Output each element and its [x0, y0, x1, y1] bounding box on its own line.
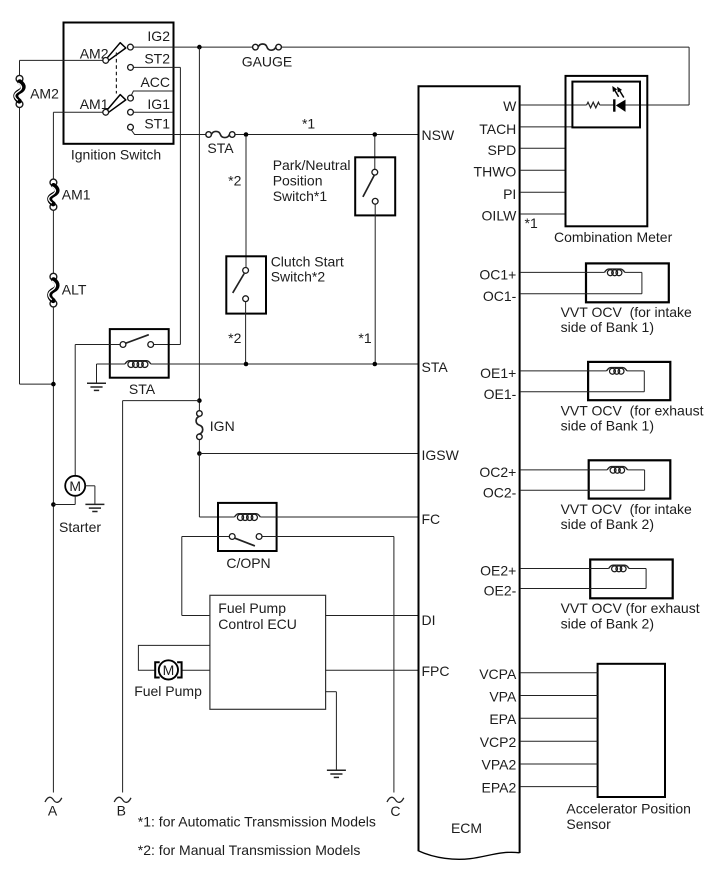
svg-text:Starter: Starter [59, 519, 101, 535]
svg-text:FC: FC [422, 511, 441, 527]
svg-text:OE1+: OE1+ [480, 365, 516, 381]
svg-text:*2: for Manual Transmission Mo: *2: for Manual Transmission Models [138, 842, 361, 858]
svg-text:TACH: TACH [479, 121, 516, 137]
svg-text:side of Bank 2): side of Bank 2) [561, 615, 654, 631]
svg-text:*2: *2 [228, 330, 241, 346]
svg-text:side of Bank 2): side of Bank 2) [561, 516, 654, 532]
svg-text:FPC: FPC [422, 663, 450, 679]
svg-text:M: M [69, 478, 81, 494]
svg-text:ST1: ST1 [144, 116, 170, 132]
svg-text:IG1: IG1 [147, 96, 170, 112]
svg-text:OC1-: OC1- [483, 288, 517, 304]
svg-text:C/OPN: C/OPN [226, 555, 270, 571]
svg-text:*1: *1 [525, 215, 538, 231]
svg-text:GAUGE: GAUGE [242, 54, 293, 70]
svg-text:STA: STA [422, 359, 449, 375]
svg-text:OILW: OILW [482, 208, 518, 224]
svg-text:*1: *1 [358, 330, 371, 346]
svg-text:AM2: AM2 [30, 86, 59, 102]
svg-text:Clutch Start: Clutch Start [271, 253, 344, 269]
svg-text:SPD: SPD [488, 142, 517, 158]
svg-text:Park/Neutral: Park/Neutral [273, 157, 351, 173]
svg-text:W: W [503, 98, 517, 114]
svg-text:VVT OCV (for intake: VVT OCV (for intake [561, 501, 692, 517]
svg-text:B: B [117, 803, 126, 819]
svg-text:Combination Meter: Combination Meter [554, 229, 673, 245]
svg-text:Fuel Pump: Fuel Pump [218, 600, 286, 616]
svg-text:PI: PI [503, 186, 516, 202]
svg-text:DI: DI [422, 612, 436, 628]
svg-text:ST2: ST2 [144, 50, 170, 66]
svg-text:Position: Position [273, 173, 323, 189]
svg-text:VVT OCV (for exhaust: VVT OCV (for exhaust [561, 600, 700, 616]
svg-text:OC2-: OC2- [483, 484, 517, 500]
svg-text:OE2+: OE2+ [480, 563, 516, 579]
svg-text:Switch*2: Switch*2 [271, 268, 326, 284]
svg-text:STA: STA [129, 381, 156, 397]
svg-text:*1: for Automatic Transmission: *1: for Automatic Transmission Models [138, 814, 376, 830]
svg-text:OC1+: OC1+ [479, 266, 516, 282]
svg-text:*2: *2 [228, 173, 241, 189]
svg-text:THWO: THWO [474, 164, 517, 180]
svg-text:NSW: NSW [422, 127, 455, 143]
svg-text:ALT: ALT [62, 282, 87, 298]
svg-text:OE1-: OE1- [484, 386, 517, 402]
svg-text:VPA2: VPA2 [482, 757, 517, 773]
svg-text:C: C [390, 803, 400, 819]
svg-text:A: A [48, 803, 58, 819]
svg-text:Control ECU: Control ECU [218, 616, 297, 632]
svg-text:IGN: IGN [210, 418, 235, 434]
svg-text:side of Bank 1): side of Bank 1) [561, 319, 654, 335]
svg-text:IGSW: IGSW [422, 447, 460, 463]
svg-text:side of Bank 1): side of Bank 1) [561, 418, 654, 434]
svg-text:EPA2: EPA2 [482, 779, 517, 795]
svg-text:OE2-: OE2- [484, 583, 517, 599]
svg-text:ACC: ACC [140, 74, 170, 90]
svg-text:VCPA: VCPA [479, 666, 517, 682]
svg-text:AM1: AM1 [62, 187, 91, 203]
svg-text:Sensor: Sensor [566, 816, 611, 832]
svg-text:STA: STA [207, 140, 234, 156]
svg-text:IG2: IG2 [147, 28, 170, 44]
svg-text:*1: *1 [302, 116, 315, 132]
svg-text:Fuel Pump: Fuel Pump [134, 683, 202, 699]
svg-text:VVT OCV (for exhaust: VVT OCV (for exhaust [561, 402, 704, 418]
svg-text:VPA: VPA [489, 689, 517, 705]
svg-text:M: M [163, 662, 175, 678]
svg-text:Ignition Switch: Ignition Switch [71, 146, 161, 162]
svg-text:VVT OCV (for intake: VVT OCV (for intake [561, 304, 692, 320]
svg-text:ECM: ECM [451, 820, 482, 836]
svg-text:Accelerator Position: Accelerator Position [566, 801, 691, 817]
svg-text:VCP2: VCP2 [480, 734, 517, 750]
svg-text:Switch*1: Switch*1 [273, 188, 328, 204]
svg-text:OC2+: OC2+ [479, 464, 516, 480]
svg-text:EPA: EPA [489, 711, 517, 727]
